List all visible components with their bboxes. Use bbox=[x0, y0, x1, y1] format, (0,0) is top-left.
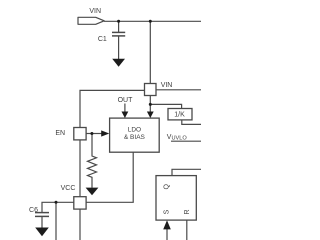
svg-text:C6: C6 bbox=[29, 207, 38, 214]
svg-text:LDO: LDO bbox=[128, 126, 141, 133]
svg-text:OUT: OUT bbox=[118, 97, 134, 104]
svg-text:VCC: VCC bbox=[61, 185, 76, 192]
svg-text:& BIAS: & BIAS bbox=[124, 134, 146, 141]
svg-text:VIN: VIN bbox=[161, 82, 173, 89]
svg-text:Q: Q bbox=[164, 183, 171, 189]
svg-text:VIN: VIN bbox=[89, 8, 101, 15]
svg-text:EN: EN bbox=[55, 130, 65, 137]
svg-text:1/K: 1/K bbox=[174, 111, 185, 118]
svg-text:R: R bbox=[184, 209, 191, 214]
svg-text:C1: C1 bbox=[98, 36, 107, 43]
svg-text:S: S bbox=[164, 209, 171, 214]
svg-text:VUVLO: VUVLO bbox=[167, 134, 188, 142]
